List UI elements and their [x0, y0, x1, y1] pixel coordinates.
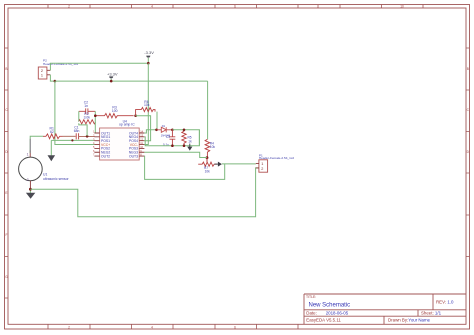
wire +3.3V horizontal rail [55, 80, 208, 82]
svg-text:D1: D1 [162, 124, 166, 128]
svg-text:op amp IC: op amp IC [119, 123, 135, 127]
svg-text:1: 1 [261, 162, 263, 166]
wire OUT3 loop to P1 node [144, 156, 224, 179]
junction detector input node [155, 129, 158, 132]
svg-text:B: B [5, 67, 7, 71]
junction on POS1 line [71, 139, 73, 141]
svg-text:0.1u: 0.1u [163, 143, 169, 147]
svg-text:ultrasonic sensor: ultrasonic sensor [43, 177, 70, 181]
resistor R1 [43, 134, 62, 139]
svg-text:-3.3V: -3.3V [144, 50, 154, 55]
U4 right pin names [129, 131, 138, 158]
resistor R3 [95, 114, 133, 118]
wire POS1 line [51, 139, 94, 141]
capacitor C2 [79, 108, 96, 114]
svg-text:6: 6 [234, 326, 236, 330]
wire P2 pin2 to -3.3V node [50, 63, 148, 70]
wire VCC+ feed vertical [55, 81, 95, 144]
svg-text:2: 2 [41, 69, 43, 73]
wire detector bottom rail [144, 130, 199, 146]
U4 right pin numbers [140, 130, 143, 157]
svg-text:1n: 1n [84, 104, 88, 108]
svg-text:3.0k: 3.0k [84, 116, 91, 120]
junction C3 top [171, 129, 174, 132]
svg-text:62: 62 [50, 130, 54, 134]
svg-text:2: 2 [68, 326, 70, 330]
svg-text:E: E [5, 191, 7, 195]
net port arrow right at R7 output [215, 162, 222, 167]
wire C1 to NEG1 pin [79, 135, 95, 137]
U4 right pin stubs [139, 133, 144, 156]
junction R3 right / R6 node [134, 114, 137, 117]
ground arrow at POS1 [48, 140, 56, 161]
wire -3.3V rail down to VCC- pin [144, 63, 148, 144]
svg-text:10: 10 [400, 5, 404, 9]
ground arrow below sensor [26, 189, 35, 199]
P2 pin stubs [47, 70, 51, 75]
svg-text:OUT2: OUT2 [101, 154, 110, 158]
svg-text:4: 4 [151, 5, 153, 9]
wire R1 to C1 (NEG1 line) [63, 135, 76, 137]
wire R6 right lead down to detector node [156, 112, 158, 130]
svg-text:F: F [6, 233, 8, 237]
wire C2/R2 right side vertical to OUT1 [94, 111, 96, 133]
power flag -3.3V [144, 50, 154, 63]
resistor R5 [182, 130, 186, 145]
svg-text:C3: C3 [166, 135, 170, 139]
diode D1 [157, 127, 173, 132]
connector P2 [38, 67, 50, 79]
junction R5 bottom [183, 144, 186, 147]
svg-text:New Schematic: New Schematic [309, 302, 351, 308]
op-amp U4 [94, 128, 144, 160]
svg-text:REV: 1.0: REV: 1.0 [436, 300, 454, 305]
svg-text:10k: 10k [210, 145, 216, 149]
svg-text:+3.3V: +3.3V [107, 71, 118, 76]
wire +3.3V rail down right side to R4 [207, 81, 209, 139]
capacitor C1 [76, 133, 78, 139]
svg-text:Header-Female-2.54_1x2: Header-Female-2.54_1x2 [259, 156, 295, 160]
wire sensor bottom to P1 pin2 (bottom run) [30, 168, 258, 217]
junction R4 bottom [206, 156, 209, 159]
svg-text:Your Name: Your Name [408, 317, 430, 322]
svg-text:10k: 10k [144, 103, 150, 107]
resistor R2 [78, 120, 95, 124]
resistor R4 [205, 139, 210, 157]
wire R3 node to POS4 [136, 116, 151, 141]
resistor R7 [198, 158, 217, 167]
wire C2/R2 left side down to NEG1 junction [79, 111, 87, 136]
junction at P2 pin1 rail [54, 80, 57, 83]
wire R7 arrow to P1 pin1 [222, 163, 256, 165]
resistor R6 [136, 108, 155, 116]
capacitor C3 [170, 130, 176, 146]
svg-text:Drawn By:: Drawn By: [388, 317, 408, 322]
svg-text:100: 100 [112, 109, 118, 113]
junction at -3.3V node [147, 62, 150, 65]
junction C3 bottom [171, 144, 174, 147]
svg-text:OUT3: OUT3 [129, 154, 138, 158]
net port arrow down at detector output [187, 144, 192, 151]
junction at +3.3V flag [110, 80, 113, 83]
svg-text:Date:: Date: [306, 310, 317, 315]
svg-text:68n: 68n [74, 129, 80, 133]
svg-text:2018-06-05: 2018-06-05 [326, 310, 349, 315]
U4 left pin stubs [94, 133, 99, 156]
svg-text:EasyEDA V5.5.11: EasyEDA V5.5.11 [306, 317, 341, 322]
svg-text:1: 1 [27, 153, 29, 157]
wire OUT4 to detector node [144, 130, 156, 133]
svg-text:B: B [467, 67, 469, 71]
ultrasonic sensor U1 [19, 150, 43, 189]
svg-text:1: 1 [41, 73, 43, 77]
junction R3 left [94, 114, 97, 117]
svg-text:4: 4 [151, 326, 153, 330]
junction on NEG1 line [86, 135, 89, 138]
title block frame [304, 294, 466, 324]
svg-text:2: 2 [68, 5, 70, 9]
wire NEG3 to R4 bottom node [144, 152, 207, 157]
junction R5 top [183, 129, 186, 132]
wire detector top rail [172, 130, 199, 146]
svg-text:TITLE:: TITLE: [306, 295, 316, 299]
svg-text:2: 2 [261, 167, 263, 171]
power flag +3.3V [107, 71, 118, 81]
connector P1 [256, 160, 268, 172]
svg-text:Sheet: 1/1: Sheet: 1/1 [421, 310, 442, 315]
svg-text:8: 8 [317, 5, 319, 9]
wire sensor top to R1 [30, 136, 43, 153]
svg-text:2: 2 [27, 178, 29, 182]
svg-text:1k: 1k [188, 140, 192, 144]
U4 left pin names [101, 131, 110, 158]
junction at sensor bottom [29, 188, 32, 191]
U4 left pin numbers [93, 130, 95, 157]
svg-text:6: 6 [234, 5, 236, 9]
P1 pin stubs [256, 163, 259, 168]
wire P2 pin1 to +3.3V rail [50, 75, 55, 81]
svg-text:10k: 10k [205, 170, 211, 174]
